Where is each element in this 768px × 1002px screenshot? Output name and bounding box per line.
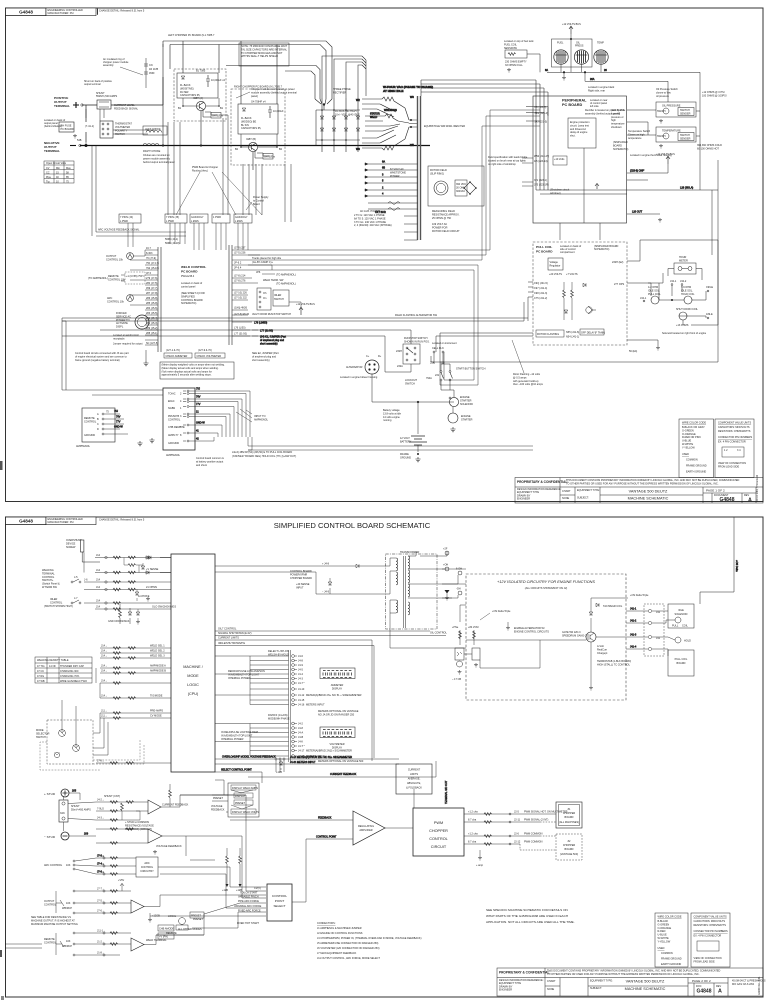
svg-text:VARIABLE ARC FORCE: VARIABLE ARC FORCE: [234, 905, 262, 908]
idle solenoid connector block (dashed): [644, 604, 664, 656]
svg-text:NGBN: NGBN: [168, 407, 175, 410]
scan tear marks left edge: [0, 461, 4, 1000]
peripheral board left lower rows: [522, 155, 599, 195]
svg-text:47 TIG: 47 TIG: [37, 665, 45, 668]
peripheral board: engine protection block: [568, 118, 596, 148]
wire: voltage feedback long runs: [5, 836, 215, 948]
svg-text:IDDLE/SHUTDOWN/HG: IDDLE/SHUTDOWN/HG: [218, 642, 245, 645]
svg-text:100 OHMS @ 100PSI: 100 OHMS @ 100PSI: [702, 94, 727, 97]
svg-text:566B (J4-18): 566B (J4-18): [165, 242, 180, 245]
svg-text:FEEDBACK: FEEDBACK: [211, 808, 225, 811]
welding density table: [35, 657, 92, 683]
small resistor pair above cpu: [108, 604, 132, 624]
svg-text:SEE SPECIFIC MACHINE SCHEMATIC: SEE SPECIFIC MACHINE SCHEMATIC FOR DETAI…: [486, 908, 568, 912]
overcurrent device symbol top-left: [66, 539, 100, 562]
svg-text:L EWS: L EWS: [235, 220, 243, 223]
wire: drops below connector row to weld ctrl: [128, 223, 248, 250]
note: temperature switch closes on high temp: [628, 130, 722, 150]
page 1 legend: wire color code: [679, 419, 714, 478]
page 2 border frame: [6, 517, 764, 997]
svg-text:B1 7085: B1 7085: [196, 70, 206, 73]
svg-text:J4-B: J4-B: [298, 736, 303, 739]
svg-text:(SLIP RING): (SLIP RING): [430, 172, 444, 175]
connector row: gate drive boxes: [190, 214, 252, 223]
see specific machine schematic note: [486, 908, 575, 924]
wire: aux power winding rows: [365, 161, 418, 241]
svg-text:ALTERNATOR: ALTERNATOR: [346, 366, 363, 369]
svg-text:ROTOR FIELD CIRCUIT: ROTOR FIELD CIRCUIT: [432, 230, 460, 233]
svg-text:BOARD: BOARD: [565, 816, 574, 819]
wire: long bottom-right run page1: [431, 325, 718, 362]
svg-text:PRESET: PRESET: [193, 918, 203, 921]
svg-text:WELD SEL 1: WELD SEL 1: [150, 645, 165, 648]
svg-text:(J7-8) 276: (J7-8) 276: [234, 280, 246, 283]
svg-text:HOLD: HOLD: [684, 640, 691, 643]
wires: control point to regulating amplifier: [230, 817, 353, 903]
svg-text:Right side, rear: Right side, rear: [588, 89, 605, 92]
rotor field circuit box: [428, 166, 484, 206]
svg-text:SCREW: SCREW: [66, 546, 76, 549]
wire: rectifier AC inputs from stator: [316, 56, 366, 146]
svg-text:ENGINE CONTROL CIRCUITS: ENGINE CONTROL CIRCUITS: [514, 630, 549, 633]
svg-text:7 PINS (J4): 7 PINS (J4): [120, 216, 133, 219]
svg-text:MANUFACTURER: Pld: MANUFACTURER: Pld: [48, 12, 74, 15]
svg-text:TEMP: TEMP: [597, 42, 604, 45]
svg-text:LOCAL: LOCAL: [168, 915, 177, 918]
svg-text:INTERNAL POWER: INTERNAL POWER: [221, 738, 244, 741]
svg-text:J14→: J14→: [101, 670, 108, 673]
svg-text:CHANGE DETAIL: Released 8.31: CHANGE DETAIL: Released 8.31 from 5: [99, 518, 145, 521]
svg-text:PWM COMMON: PWM COMMON: [524, 833, 543, 836]
svg-text:BOARD: BOARD: [677, 662, 686, 665]
svg-text:PWM SIGNAL (2 INT): PWM SIGNAL (2 INT): [524, 819, 549, 822]
svg-text:EQUIBSTOLE WM.WIWL IDEM TER: EQUIBSTOLE WM.WIWL IDEM TER: [424, 125, 465, 128]
svg-text:371 (J23-1): 371 (J23-1): [534, 179, 547, 182]
gauge panel box: [552, 34, 593, 72]
svg-text:55MV/1,500 AMPS: 55MV/1,500 AMPS: [96, 95, 117, 98]
svg-text:VANTAGE 500 DEUTZ: VANTAGE 500 DEUTZ: [626, 980, 665, 984]
svg-text:WELD TERMINAL: WELD TERMINAL: [146, 939, 167, 942]
transformer secondary terminals: [420, 548, 462, 601]
svg-text:33 OHMS FULL: 33 OHMS FULL: [505, 64, 523, 67]
svg-text:L76 (L/50): L76 (L/50): [234, 327, 246, 330]
svg-text:Tracks placed for high idle: Tracks placed for high idle: [252, 257, 282, 260]
note: chopper modules are located on power module assembly: [236, 88, 297, 98]
svg-text:AMPILTY: AMPILTY: [168, 434, 179, 437]
svg-text:+V5V: +V5V: [118, 879, 125, 882]
svg-text:DISPL: DISPL: [116, 326, 124, 329]
weld control spine pins right rows: [232, 250, 260, 336]
svg-text:J7 MAIN EQUIPMENT FEEDBACK: J7 MAIN EQUIPMENT FEEDBACK: [317, 952, 357, 955]
svg-text:PROPRIETARY & CONFIDENTIAL:: PROPRIETARY & CONFIDENTIAL:: [499, 971, 550, 975]
svg-text:ALL OTHER MODES: ALL OTHER MODES: [178, 928, 202, 931]
svg-text:Y-YELLOW: Y-YELLOW: [658, 940, 671, 943]
svg-text:FUEL: FUEL: [557, 42, 564, 45]
svg-text:+1.2 cha: +1.2 cha: [468, 833, 478, 836]
svg-text:286 (J5-8): 286 (J5-8): [146, 297, 158, 300]
pull coil board: right pin labels: [612, 261, 660, 353]
svg-text:AMMETER: AMMETER: [331, 684, 344, 687]
svg-text:CHB AMODE: CHB AMODE: [159, 928, 174, 931]
svg-text:SELECT CONTROL POINT: SELECT CONTROL POINT: [221, 769, 252, 772]
svg-text:output terminal: output terminal: [84, 83, 101, 86]
svg-text:(ALL MACHINES): (ALL MACHINES): [559, 821, 579, 824]
voltage feedback op-amp: [148, 829, 186, 854]
svg-text:CONNECTOR PIN NUMBERS: CONNECTOR PIN NUMBERS: [694, 930, 728, 933]
left chopper PC board (dashed): [168, 34, 226, 121]
svg-text:EX: 4 PIN CONNECTOR: EX: 4 PIN CONNECTOR: [718, 441, 746, 444]
stator winding assembly (weld alternator): [356, 85, 433, 151]
svg-text:FRAME GROUND: FRAME GROUND: [661, 958, 682, 961]
svg-text:DISPLAY: DISPLAY: [332, 747, 343, 750]
fuel sender resistor: [505, 50, 527, 72]
svg-text:+12 VOLTS BUS: +12 VOLTS BUS: [562, 23, 581, 26]
svg-text:SIG/WAL SHUTDOWN (E:4V): SIG/WAL SHUTDOWN (E:4V): [218, 632, 252, 635]
svg-text:J14: J14: [96, 586, 101, 589]
svg-text:METER(A)/BRUD 2N11+ SIC/AMMETE: METER(A)/BRUD 2N11+ SIC/AMMETER: [306, 750, 352, 753]
svg-text:+OH: +OH: [443, 564, 448, 567]
svg-text:1R 1F/B: 1R 1F/B: [149, 68, 159, 71]
svg-text:METERS INPUT: METERS INPUT: [306, 704, 325, 707]
svg-text:WIRE COLOR CODE: WIRE COLOR CODE: [658, 915, 682, 918]
svg-text:AMP/MODE A: AMP/MODE A: [150, 665, 166, 668]
svg-text:MODE: MODE: [187, 674, 199, 678]
svg-text:279 (J7-6): 279 (J7-6): [146, 277, 158, 280]
note: meters internal 2: [276, 760, 364, 774]
remote op-amp: [131, 935, 204, 951]
weld select resistor rows: [100, 648, 171, 718]
vertical resistors left of control point select: [222, 848, 242, 892]
svg-text:VOLTMETER: VOLTMETER: [329, 743, 344, 746]
svg-text:L PWR: L PWR: [166, 220, 174, 223]
note: rotor spec text: [488, 156, 528, 166]
svg-text:2, 4 (60/240): 240 VAC (3PHASE: 2, 4 (60/240): 240 VAC (3PHASE): [354, 224, 392, 227]
preset boxes right column: [211, 783, 259, 817]
svg-text:RESISTORS: OHMS/WATTS: RESISTORS: OHMS/WATTS: [718, 430, 751, 433]
svg-text:CHART: CHART: [547, 980, 556, 983]
left text blocks display section: [221, 670, 265, 741]
- stud terminal: [44, 832, 69, 840]
svg-text:J4-8: J4-8: [298, 660, 303, 663]
svg-text:J2-11: J2-11: [514, 819, 521, 822]
svg-text:LIMITS: LIMITS: [410, 773, 418, 776]
peripheral board: left pin labels: [526, 106, 548, 124]
svg-text:PRESET: PRESET: [235, 802, 245, 805]
svg-text:L77 (31-50): L77 (31-50): [234, 333, 247, 336]
iso box: enable label: [506, 622, 549, 633]
svg-text:FIELD FLASHING ALTERNATOR SW: FIELD FLASHING ALTERNATOR SW: [395, 314, 438, 317]
cpu right: control lines top: [215, 631, 446, 761]
svg-text:assembly: assembly: [103, 64, 114, 67]
svg-text:288 (J5-1): 288 (J5-1): [146, 332, 158, 335]
svg-text:OIL7 CONTROL: OIL7 CONTROL: [218, 628, 237, 631]
ground under pwm rows: [476, 850, 484, 867]
svg-text:47 RG: 47 RG: [37, 675, 44, 678]
check meter small boxes: [164, 349, 225, 358]
svg-text:CV MODE: CV MODE: [150, 715, 162, 718]
svg-text:(J27-1 & 70): (J27-1 & 70): [166, 349, 180, 352]
svg-text:short assembly): short assembly): [260, 342, 278, 345]
svg-text:~ 17 CB: ~ 17 CB: [452, 678, 461, 681]
svg-text:(SWITCH SHOWN HIGH): (SWITCH SHOWN HIGH): [44, 605, 73, 608]
diodes mid rows: [124, 556, 159, 624]
svg-text:J34-1: J34-1: [670, 280, 677, 283]
svg-text:GND-W: GND-W: [114, 426, 123, 429]
svg-text:47 CC: 47 CC: [37, 670, 44, 673]
svg-text:34N: 34N: [60, 812, 65, 815]
svg-text:J14: J14: [96, 600, 101, 603]
svg-text:232H (E2): 232H (E2): [612, 261, 624, 264]
local/remote transistor: [166, 912, 204, 935]
svg-text:D: D: [97, 428, 99, 431]
svg-text:COMMON: COMMON: [686, 458, 698, 461]
svg-text:J4 CHOPPER/PWM, POWER IN, (TH: J4 CHOPPER/PWM, POWER IN, (THERMAL OVERL…: [317, 937, 422, 940]
svg-text:WELD: WELD: [370, 116, 377, 119]
svg-text:PC BOARD: PC BOARD: [181, 270, 198, 274]
svg-text:J2-5: J2-5: [514, 811, 519, 814]
oil pressure gauge: [574, 42, 588, 65]
svg-text:PWGA/45.4: PWGA/45.4: [181, 275, 195, 278]
fuel gauge: [554, 42, 568, 65]
svg-text:PULL COIL: PULL COIL: [675, 658, 688, 661]
svg-text:SPEEDRUM GANG-2: SPEEDRUM GANG-2: [562, 634, 587, 637]
svg-text:CHECK AMMETER: CHECK AMMETER: [166, 355, 188, 358]
wire: weld control lower pins: [232, 322, 286, 346]
svg-text:CAPACITORS: MFD/VOLTS: CAPACITORS: MFD/VOLTS: [694, 920, 726, 923]
svg-text:SUBJECT:: SUBJECT:: [590, 987, 602, 990]
svg-text:J2 ENGINE ON CONTROL FUNCTIO: J2 ENGINE ON CONTROL FUNCTIONS: [317, 932, 363, 935]
svg-text:C99-E: C99-E: [706, 286, 713, 289]
cpu pin labels left middle: [150, 645, 166, 718]
voltmeter display box: [320, 727, 355, 750]
svg-text:AMPHENOL: AMPHENOL: [254, 418, 269, 421]
svg-text:J6 VOLTMETER (A/D CONNECTOR O: J6 VOLTMETER (A/D CONNECTOR ON RANGER 25…: [317, 947, 380, 950]
note: battery voltage: [383, 409, 402, 422]
svg-text:+12B: +12B: [276, 771, 282, 774]
svg-text:behind output terminal panel: behind output terminal panel: [143, 161, 175, 164]
67 volt AC winding labels: [390, 168, 406, 178]
svg-text:USED: USED: [658, 947, 665, 950]
svg-text:DISPLAY WELD VOLTS: DISPLAY WELD VOLTS: [232, 811, 259, 814]
cpu left pin stubs: [160, 558, 171, 573]
preset boxes mid: [158, 925, 202, 939]
svg-text:PAGE 1 OF 2: PAGE 1 OF 2: [706, 489, 725, 493]
svg-text:SC (J27-5): SC (J27-5): [146, 342, 158, 345]
svg-text:JP 6: JP 6: [146, 272, 152, 275]
svg-text:CHOPPER: CHOPPER: [429, 829, 448, 833]
note: +STUD to COMMON: [125, 821, 154, 831]
open circuit volts table: [44, 161, 74, 183]
svg-text:+ STUD: + STUD: [44, 792, 56, 796]
output control rows: [44, 890, 75, 914]
svg-text:6B: 6B: [382, 167, 385, 170]
control board power text: [290, 570, 312, 589]
svg-text:and shunt: and shunt: [196, 464, 207, 467]
page 1 legend: component values: [715, 419, 754, 478]
svg-text:J11→: J11→: [101, 715, 107, 718]
weld control spine pin labels left: [146, 247, 159, 345]
svg-text:compartment: compartment: [560, 251, 575, 254]
svg-text:375 (J23-1R): 375 (J23-1R): [534, 184, 549, 187]
note: insulated top of chopper power module: [103, 58, 143, 75]
iso box: mosfet: [562, 631, 596, 642]
svg-text:PERIPHERAL: PERIPHERAL: [562, 99, 587, 103]
connector row: mid box: [165, 214, 187, 223]
svg-text:CHB REMOTE: CHB REMOTE: [168, 426, 185, 429]
svg-text:J14→: J14→: [101, 655, 108, 658]
wire: field flashing run to alternator: [62, 297, 533, 390]
wire: bottom bus labels page1: [196, 451, 296, 467]
svg-text:J14→: J14→: [101, 650, 108, 653]
svg-text:BATTERY: BATTERY: [400, 440, 412, 443]
svg-text:WINDINGS: WINDINGS: [384, 109, 397, 112]
wire: negative bus main horizontal: [80, 145, 430, 147]
svg-text:(7-41-1): (7-41-1): [85, 125, 94, 128]
svg-text:GATE/Em: GATE/Em: [264, 156, 275, 159]
svg-text:TERMINAL: TERMINAL: [44, 149, 60, 153]
svg-text:C+: C+: [366, 355, 370, 358]
svg-text:453F: 453F: [149, 72, 155, 75]
svg-text:CONTROL: CONTROL: [272, 894, 287, 898]
svg-text:DISPLAY: DISPLAY: [332, 688, 343, 691]
svg-text:44 CU 2/84, TH/DESAM: 44 CU 2/84, TH/DESAM: [756, 475, 759, 502]
input protection rows (diode/resistor rows): [84, 553, 171, 610]
svg-text:EQUIPMENT TYPE:: EQUIPMENT TYPE:: [590, 980, 613, 983]
svg-text:OIL PRESSURE: OIL PRESSURE: [662, 105, 681, 108]
svg-text:J4-5: J4-5: [298, 669, 303, 672]
svg-text:CC: CC: [46, 171, 50, 174]
note: J23-8 274 text: [611, 109, 625, 129]
svg-text:JP-6.4: JP-6.4: [234, 267, 242, 270]
svg-text:CONTROL: CONTROL: [141, 866, 154, 869]
svg-text:21 OHMS: 21 OHMS: [146, 586, 157, 589]
svg-text:Open Circuit Volts: Open Circuit Volts: [46, 162, 67, 165]
svg-text:459 (J7-7): 459 (J7-7): [146, 287, 158, 290]
remote control rows: [44, 932, 75, 956]
svg-text:FRAME GROUND: FRAME GROUND: [686, 464, 707, 467]
output control op-amp: [131, 895, 160, 922]
svg-text:+7 VOLTS: +7 VOLTS: [566, 273, 578, 276]
voltage feedback resistor rows: [96, 829, 148, 843]
svg-text:284 (J5-6): 284 (J5-6): [146, 307, 158, 310]
ground at negative terminal: [73, 134, 77, 138]
wires to solenoid blocks: [626, 608, 675, 657]
svg-text:+V (PH): +V (PH): [159, 936, 168, 939]
mode selector switch (rotary): [36, 720, 93, 764]
svg-text:SENSDOW: SENSDOW: [504, 47, 518, 50]
pwm outputs to chopper boards: [464, 814, 556, 850]
wire: right edge vertical page2: [700, 517, 738, 604]
svg-text:NONE: NONE: [562, 497, 570, 500]
svg-text:CONTROL: CONTROL: [44, 903, 57, 906]
J4 group1 rows (ammeter): [215, 656, 289, 705]
svg-text:POINT: POINT: [275, 899, 285, 903]
shunt p2: [59, 800, 91, 822]
left choke CH1: [143, 126, 167, 135]
hour meter: [674, 256, 696, 274]
ammeter display box: [320, 668, 355, 691]
svg-text:(J27-9 & 70): (J27-9 & 70): [198, 349, 212, 352]
svg-text:APPLICATION. NOT ALL CIRCUITS: APPLICATION. NOT ALL CIRCUITS ARE USED A…: [486, 920, 575, 924]
svg-text:AT HIGH IDLE: AT HIGH IDLE: [383, 89, 403, 93]
oil pressure switch: [656, 102, 696, 123]
svg-text:CHANGE DETAIL: Released 8.31: CHANGE DETAIL: Released 8.31 from 5: [99, 9, 145, 12]
wire: right edge long verticals page1: [627, 160, 718, 325]
page 2 title block: [497, 968, 763, 996]
svg-text:10K: 10K: [66, 940, 71, 943]
note: rotor flashing: [512, 340, 544, 386]
RH fuse PC board: [44, 119, 74, 132]
svg-text:283 (J5-5): 283 (J5-5): [146, 312, 158, 315]
svg-text:26A: 26A: [590, 78, 595, 81]
svg-text:G4848: G4848: [19, 10, 33, 15]
svg-text:J34-2: J34-2: [680, 280, 687, 283]
svg-text:PC BOARD: PC BOARD: [61, 128, 74, 131]
three phase rectifier assembly: [316, 88, 360, 152]
svg-text:47 WB: 47 WB: [37, 680, 45, 683]
right chopper PC board (dashed): [231, 86, 285, 166]
right chopper: IGBT Q2: [235, 134, 283, 159]
svg-text:CN: CN: [149, 64, 153, 67]
fuel solenoid terminals: [430, 342, 457, 365]
wire: chopper outputs down: [162, 105, 253, 170]
svg-text:Pipe: Pipe: [46, 176, 52, 179]
forced service AC display circle: [116, 312, 149, 329]
svg-text:60-100 OHMS HOT: 60-100 OHMS HOT: [697, 147, 719, 150]
svg-text:SHUT DOWN COIL: SHUT DOWN COIL: [676, 308, 699, 311]
wire: reg amp to pwm: [215, 756, 448, 829]
svg-text:J4-17: J4-17: [298, 750, 305, 753]
svg-text:300VAC: 300VAC: [456, 190, 465, 193]
J4 group1 labels: [268, 650, 362, 707]
svg-text:277 OPS: 277 OPS: [614, 283, 624, 286]
wire: cpu bottom to control select area: [215, 756, 352, 795]
page 1 title block: [515, 478, 763, 504]
svg-text:SENDER: SENDER: [680, 113, 691, 116]
+12 volts bus small arrow mid: [656, 153, 675, 164]
remote control dashed box: [88, 272, 145, 284]
current limits box: [396, 764, 432, 794]
svg-text:PRESS: PRESS: [575, 45, 584, 48]
weld control spine pins left: [130, 250, 158, 345]
svg-text:L/E-6) 485/J27(54) (206,50) E: L/E-6) 485/J27(54) (206,50) E TO PULL CO…: [232, 451, 292, 454]
output control potentiometer R1: [106, 250, 145, 262]
pull coil board: left pin labels: [528, 282, 548, 300]
svg-text:short assembly): short assembly): [252, 359, 270, 362]
svg-text:W6: W6: [356, 148, 360, 151]
svg-text:STARTER: STARTER: [461, 418, 473, 421]
svg-text:55mV+450 AMPS: 55mV+450 AMPS: [71, 808, 91, 811]
svg-text:MACHINE SCHEMATIC: MACHINE SCHEMATIC: [625, 987, 666, 991]
svg-text:14 OF: 14 OF: [49, 665, 56, 668]
svg-text:Max: Max: [66, 167, 71, 170]
svg-text:280 (J7-5): 280 (J7-5): [146, 282, 158, 285]
svg-text:(J7-9) 237: (J7-9) 237: [234, 247, 246, 250]
shutdown solenoid coil: [676, 286, 713, 327]
svg-text:1 2: 1 2: [724, 449, 728, 452]
svg-text:CIRCUITRY: CIRCUITRY: [140, 870, 154, 873]
svg-text:(J27-5) RU26: (J27-5) RU26: [234, 313, 250, 316]
svg-text:POWER: POWER: [390, 175, 400, 178]
svg-text:LEFT CHOPPER PC BOARD (9-1.7: LEFT CHOPPER PC BOARD (9-1.7085.7: [168, 34, 215, 37]
svg-text:TO/AC: TO/AC: [168, 393, 176, 396]
svg-text:+12 VOLTS BUS: +12 VOLTS BUS: [296, 303, 315, 306]
note: meters internal: [318, 710, 359, 717]
svg-text:Chargept: Chargept: [597, 652, 608, 655]
weld control PC board label: [181, 265, 206, 278]
svg-text:+12 VOLTS BUS: +12 VOLTS BUS: [656, 153, 675, 156]
svg-text:L PWR: L PWR: [120, 220, 128, 223]
